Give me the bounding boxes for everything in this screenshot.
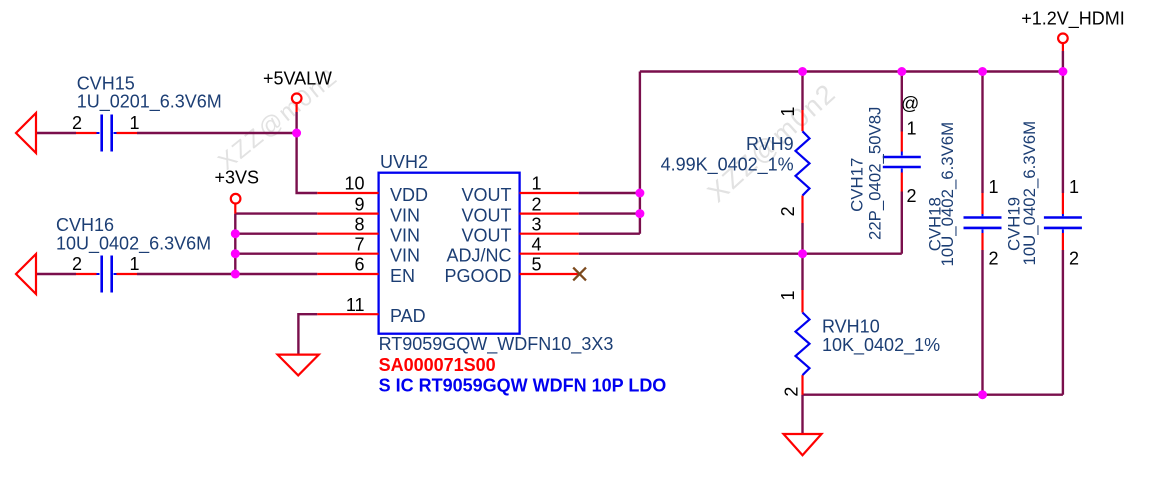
wire CVH18 bottom xyxy=(981,250,983,395)
svg-text:2: 2 xyxy=(72,113,82,133)
off-page connector arrow (CVH16 net) xyxy=(16,254,36,294)
node junction rail/RVH9 xyxy=(798,67,807,76)
wire CVH15.1 to +5VALW net xyxy=(137,132,297,134)
svg-text:SA000071S00: SA000071S00 xyxy=(379,355,496,375)
wire PAD pin 11 to ground xyxy=(298,314,317,354)
svg-text:VDD: VDD xyxy=(390,185,428,205)
svg-text:VOUT: VOUT xyxy=(461,206,511,226)
off-page connector arrow (CVH15 net) xyxy=(16,113,36,153)
svg-text:7: 7 xyxy=(354,234,364,254)
wire +1.2V_HDMI top rail xyxy=(640,70,1063,72)
wire +1.2V_HDMI to rail xyxy=(1062,51,1064,72)
capacitor CVH15 xyxy=(72,73,222,151)
svg-text:4: 4 xyxy=(532,234,542,254)
svg-text:CVH16: CVH16 xyxy=(56,215,114,235)
wire ground stub below RVH10 xyxy=(801,395,803,434)
svg-text:@: @ xyxy=(901,93,919,113)
svg-text:RVH9: RVH9 xyxy=(746,134,794,154)
svg-text:+5VALW: +5VALW xyxy=(263,69,332,89)
pin 1 VOUT xyxy=(461,174,578,205)
svg-text:10: 10 xyxy=(344,174,364,194)
pin 5 PGOOD xyxy=(444,255,578,286)
wire CVH18 top xyxy=(981,72,983,194)
wire RVH10 bottom to ground rail xyxy=(803,394,1063,396)
svg-text:8: 8 xyxy=(354,214,364,234)
capacitor CVH19 xyxy=(1005,121,1082,269)
node junction rail/+1.2V_HDMI xyxy=(1058,67,1067,76)
svg-text:2: 2 xyxy=(778,206,798,216)
pin 6 EN xyxy=(317,255,415,286)
svg-text:UVH2: UVH2 xyxy=(380,152,428,172)
svg-text:1: 1 xyxy=(778,290,798,300)
svg-text:+3VS: +3VS xyxy=(215,168,260,188)
wire RVH9 bottom xyxy=(801,223,803,254)
power symbol +1.2V_HDMI xyxy=(1021,9,1125,51)
svg-text:RVH10: RVH10 xyxy=(822,317,880,337)
svg-text:11: 11 xyxy=(346,295,365,315)
pin 7 VIN xyxy=(317,234,420,265)
node junction VOUT pin2 xyxy=(635,209,644,218)
node junction +3VS/pin8 xyxy=(231,229,240,238)
wire RVH9 top xyxy=(801,72,803,111)
svg-text:10U_0402_6.3V6M: 10U_0402_6.3V6M xyxy=(938,122,957,267)
pin 8 VIN xyxy=(317,214,420,245)
no-connect X on pin 5 xyxy=(573,268,586,281)
wire pin 3 VOUT xyxy=(579,232,640,234)
svg-text:10U_0402_6.3V6M: 10U_0402_6.3V6M xyxy=(1020,121,1039,266)
wire +3VS to pin 6 xyxy=(235,273,317,275)
svg-text:2: 2 xyxy=(1069,249,1079,269)
svg-text:+1.2V_HDMI: +1.2V_HDMI xyxy=(1021,9,1125,30)
wire CVH15.2 to off-page arrow xyxy=(36,132,76,134)
svg-text:CVH17: CVH17 xyxy=(848,158,867,212)
svg-text:1: 1 xyxy=(907,118,917,138)
wire +3VS to pin 9 xyxy=(235,212,317,214)
pin 3 VOUT xyxy=(461,214,578,245)
svg-text:CVH15: CVH15 xyxy=(77,73,135,93)
wire +5VALW vertical to pin 10 xyxy=(297,112,318,193)
wire CVH17 bottom xyxy=(901,192,903,254)
node junction rail/CVH17 xyxy=(897,67,906,76)
pin 2 VOUT xyxy=(461,194,578,225)
svg-text:22P_0402_50V8J: 22P_0402_50V8J xyxy=(866,107,885,240)
resistor RVH10 xyxy=(778,290,940,397)
pin 10 VDD xyxy=(317,174,428,205)
svg-text:2: 2 xyxy=(782,387,802,397)
svg-text:1U_0201_6.3V6M: 1U_0201_6.3V6M xyxy=(77,92,222,113)
svg-text:4.99K_0402_1%: 4.99K_0402_1% xyxy=(661,155,794,176)
svg-text:1: 1 xyxy=(129,254,139,274)
svg-text:VOUT: VOUT xyxy=(461,226,511,246)
svg-text:1: 1 xyxy=(129,113,139,133)
svg-text:2: 2 xyxy=(907,186,917,206)
node junction +3VS/CVH16/pin6 xyxy=(231,270,240,279)
svg-text:1: 1 xyxy=(778,107,798,117)
wire CVH16.2 to off-page arrow xyxy=(36,273,76,275)
svg-text:3: 3 xyxy=(532,214,542,234)
svg-text:9: 9 xyxy=(354,194,364,214)
ground below PAD xyxy=(278,355,319,376)
IC UVH2 RT9059GQW_WDFN10_3X3 body xyxy=(379,152,667,395)
svg-text:PGOOD: PGOOD xyxy=(444,266,511,286)
svg-text:1: 1 xyxy=(532,174,542,194)
svg-text:2: 2 xyxy=(532,194,542,214)
svg-text:VIN: VIN xyxy=(390,246,420,266)
svg-text:VIN: VIN xyxy=(390,206,420,226)
svg-text:RT9059GQW_WDFN10_3X3: RT9059GQW_WDFN10_3X3 xyxy=(379,334,614,355)
node junction ADJ/RVH9/RVH10 xyxy=(798,249,807,258)
svg-text:VIN: VIN xyxy=(390,226,420,246)
node junction gnd rail/CVH18 xyxy=(978,390,987,399)
power symbol +5VALW xyxy=(263,69,332,113)
svg-text:EN: EN xyxy=(390,266,415,286)
svg-text:10K_0402_1%: 10K_0402_1% xyxy=(822,335,940,356)
wire CVH19 bottom xyxy=(1062,250,1064,395)
svg-text:6: 6 xyxy=(354,255,364,275)
svg-text:1: 1 xyxy=(989,177,999,197)
node junction +3VS/pin7 xyxy=(231,249,240,258)
wire +3VS vertical xyxy=(234,214,236,274)
wire +3VS to pin 8 xyxy=(235,232,317,234)
wire pin 4 ADJ node line xyxy=(579,252,902,254)
svg-text:2: 2 xyxy=(72,254,82,274)
wire +3VS to pin 7 xyxy=(235,252,317,254)
wire VOUT vertical riser xyxy=(639,72,641,234)
svg-text:PAD: PAD xyxy=(390,306,426,326)
svg-text:ADJ/NC: ADJ/NC xyxy=(446,246,511,266)
capacitor CVH16 xyxy=(56,215,211,293)
node junction rail/CVH18 xyxy=(978,67,987,76)
svg-text:5: 5 xyxy=(532,255,542,275)
wire CVH19 top xyxy=(1062,72,1064,194)
wire CVH17 top xyxy=(901,72,903,132)
resistor RVH9 xyxy=(661,107,810,223)
pin 4 ADJ/NC xyxy=(446,234,578,265)
svg-text:VOUT: VOUT xyxy=(461,185,511,205)
capacitor CVH17 xyxy=(848,93,921,240)
wire RVH10 top xyxy=(801,254,803,290)
pin 11 PAD xyxy=(317,295,425,326)
ground below RVH10 xyxy=(784,434,822,455)
pin 9 VIN xyxy=(317,194,420,225)
node junction VOUT pin1 xyxy=(635,189,644,198)
wire pin 2 VOUT xyxy=(579,212,640,214)
svg-text:S IC RT9059GQW WDFN 10P LDO: S IC RT9059GQW WDFN 10P LDO xyxy=(379,376,667,396)
capacitor CVH18 xyxy=(926,122,1002,269)
wire CVH16.1 to +3VS net xyxy=(137,273,235,275)
svg-text:2: 2 xyxy=(989,249,999,269)
wire pin 1 VOUT xyxy=(579,192,640,194)
power symbol +3VS xyxy=(215,168,260,214)
svg-text:1: 1 xyxy=(1069,177,1079,197)
svg-text:10U_0402_6.3V6M: 10U_0402_6.3V6M xyxy=(56,233,211,254)
node junction +5VALW/CVH15 xyxy=(292,129,301,138)
